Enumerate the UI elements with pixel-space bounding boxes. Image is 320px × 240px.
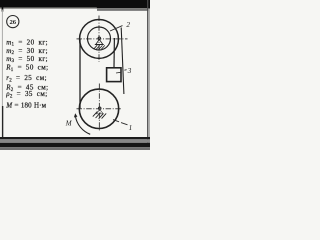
leader line for label 2 (110, 26, 123, 31)
problem number circle 26 (7, 16, 19, 28)
top band right extension (95, 0, 150, 8)
bottom border black line (0, 137, 150, 139)
svg-text:2: 2 (126, 21, 130, 29)
corner tick mark (2, 7, 4, 12)
svg-text:r2 = 25 см;: r2 = 25 см; (6, 74, 47, 83)
pulley 2 centerline horizontal (77, 38, 128, 40)
leader dashes for label 3 (116, 71, 122, 74)
label 2 (126, 21, 130, 29)
leader dashes for label 1 (113, 120, 119, 122)
left cell border lower (dark) (2, 106, 3, 138)
figure right border line (121, 28, 124, 95)
pulley 2 axle circle (98, 37, 101, 40)
right page-edge outer grey (148, 9, 150, 144)
belt left tangent line (79, 39, 81, 109)
disc 1 circle (79, 89, 118, 128)
pulley 2 outer circle (80, 19, 119, 58)
right page-edge line (147, 0, 148, 143)
pulley 2 support base line (95, 44, 104, 46)
disc 1 support hatching (93, 111, 106, 118)
disc 1 pin support triangle (96, 109, 103, 113)
bottom black band (0, 143, 150, 147)
svg-text:M = 180 Н·м: M = 180 Н·м (5, 101, 46, 109)
moment M arrowhead (74, 113, 78, 117)
pulley 2 centerline vertical (98, 16, 100, 63)
svg-text:1: 1 (129, 124, 133, 132)
bottom grey band (0, 139, 150, 143)
pulley 2 inner circle (88, 27, 111, 50)
problem number text 26 (9, 19, 16, 26)
svg-text:M: M (65, 120, 73, 128)
disc 1 axle circle (98, 107, 101, 110)
cord to load 3 (113, 38, 115, 68)
page background (0, 0, 150, 150)
bottom outer grey band (0, 147, 150, 150)
pulley 2 pin support triangle (96, 39, 103, 44)
disc 1 centerline horizontal (77, 108, 122, 110)
svg-text:3: 3 (127, 67, 132, 75)
left cell border upper (faint) (2, 10, 3, 107)
moment M arrow arc (75, 116, 90, 134)
top cell border line right (97, 9, 150, 10)
given data text (5, 38, 48, 109)
top band soft fade edge (0, 7, 150, 8)
label 3 (127, 67, 132, 75)
disc 1 centerline vertical (98, 84, 100, 132)
load 3 square (107, 68, 121, 82)
svg-text:26: 26 (9, 19, 16, 26)
top black scan band (0, 0, 150, 7)
label M (65, 120, 73, 128)
pulley 2 support hatching (94, 45, 105, 49)
label 1 (129, 124, 133, 132)
